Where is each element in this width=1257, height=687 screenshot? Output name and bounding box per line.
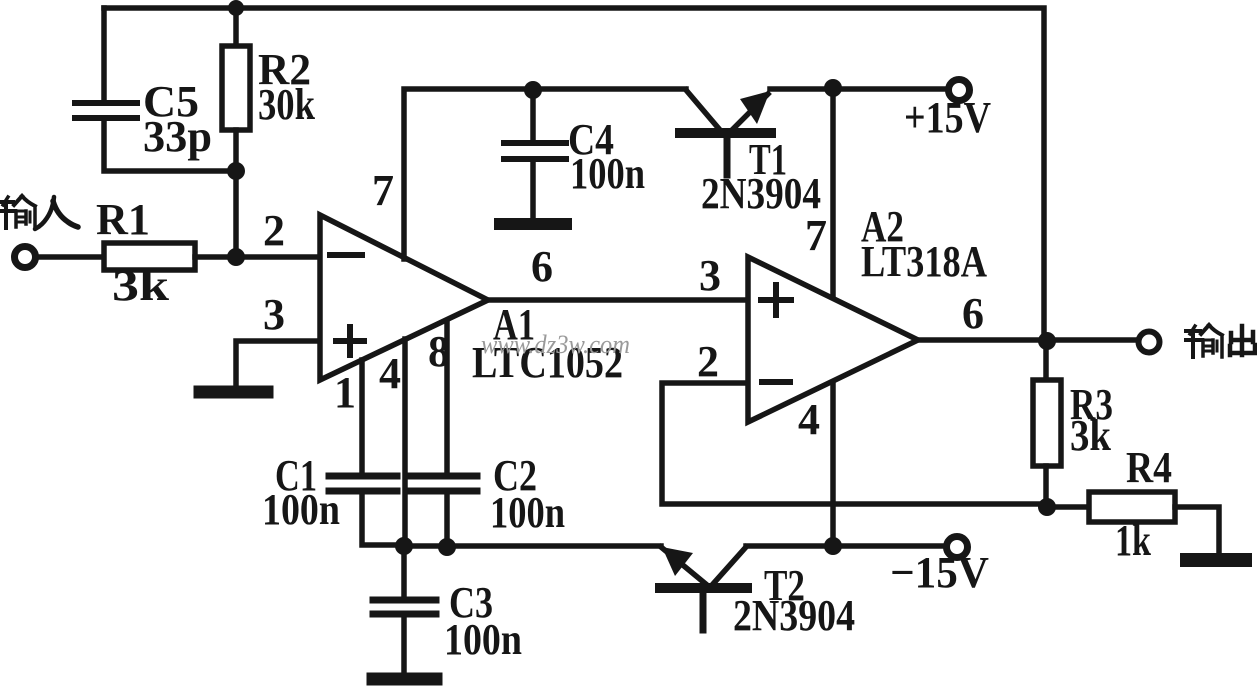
svg-text:3k: 3k — [112, 261, 170, 310]
svg-text:100n: 100n — [262, 485, 340, 534]
svg-text:100n: 100n — [490, 488, 565, 537]
svg-text:2N3904: 2N3904 — [733, 591, 855, 640]
svg-text:6: 6 — [962, 289, 984, 338]
svg-text:R4: R4 — [1126, 443, 1172, 492]
svg-text:6: 6 — [531, 242, 553, 291]
svg-text:+15V: +15V — [904, 93, 991, 142]
svg-text:4: 4 — [379, 349, 401, 398]
svg-text:100n: 100n — [570, 149, 645, 198]
svg-text:2: 2 — [697, 337, 719, 386]
svg-text:33p: 33p — [143, 112, 212, 161]
svg-text:1k: 1k — [1115, 516, 1151, 565]
svg-text:7: 7 — [372, 166, 394, 215]
svg-text:3: 3 — [699, 251, 721, 300]
svg-text:3: 3 — [263, 290, 285, 339]
svg-text:4: 4 — [798, 395, 820, 444]
svg-text:1: 1 — [334, 368, 356, 417]
svg-text:www.dz3w.com: www.dz3w.com — [481, 330, 630, 359]
svg-text:8: 8 — [428, 327, 450, 376]
svg-text:R1: R1 — [96, 195, 150, 244]
svg-text:3k: 3k — [1070, 411, 1111, 460]
svg-text:2N3904: 2N3904 — [701, 169, 821, 218]
svg-text:LT318A: LT318A — [861, 237, 987, 286]
svg-text:100n: 100n — [444, 615, 522, 664]
svg-text:7: 7 — [805, 211, 827, 260]
svg-text:2: 2 — [263, 206, 285, 255]
svg-text:30k: 30k — [258, 80, 315, 129]
svg-text:−15V: −15V — [890, 548, 989, 597]
